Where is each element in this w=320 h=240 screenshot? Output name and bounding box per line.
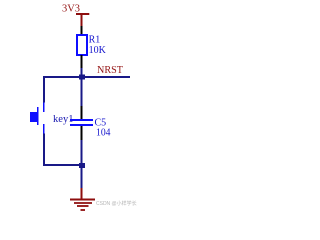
svg-text:10K: 10K: [89, 45, 107, 56]
ground bar 3: [77, 205, 89, 207]
junction node B: [79, 163, 85, 168]
wire: C5 to ground: [81, 140, 83, 188]
svg-text:NRST: NRST: [97, 65, 123, 76]
pushbutton key1 top pin: [43, 103, 45, 113]
resistor bottom pin: [81, 55, 83, 68]
wire: node A horizontal (NRST net): [44, 76, 130, 78]
svg-text:CSDN @小样学长: CSDN @小样学长: [96, 200, 137, 207]
junction node A: [79, 75, 85, 80]
pushbutton key1 contact bar: [37, 107, 39, 125]
capacitor C5 bottom plate: [70, 124, 93, 126]
ground stem: [81, 188, 83, 199]
ground bar 1: [70, 199, 95, 201]
capacitor C5 bottom pin: [81, 126, 83, 140]
svg-text:3V3: 3V3: [62, 4, 80, 15]
power bar: [76, 13, 89, 15]
capacitor C5 top plate: [70, 119, 93, 121]
ground bar 2: [74, 202, 92, 204]
resistor R1 body: [77, 35, 87, 55]
pushbutton key1 button cap: [30, 112, 37, 122]
wire: key1 down and right to node B: [44, 134, 79, 166]
wire: R1 down to node A: [81, 68, 83, 106]
ground bar 4: [81, 209, 86, 211]
pushbutton key1 bottom pin: [43, 124, 45, 134]
svg-text:R1: R1: [89, 35, 101, 46]
capacitor C5 top pin: [81, 106, 83, 119]
wire: down to key1: [43, 76, 45, 103]
svg-text:104: 104: [96, 128, 111, 139]
wire: power to R1: [81, 26, 83, 35]
power stem: [81, 13, 83, 26]
